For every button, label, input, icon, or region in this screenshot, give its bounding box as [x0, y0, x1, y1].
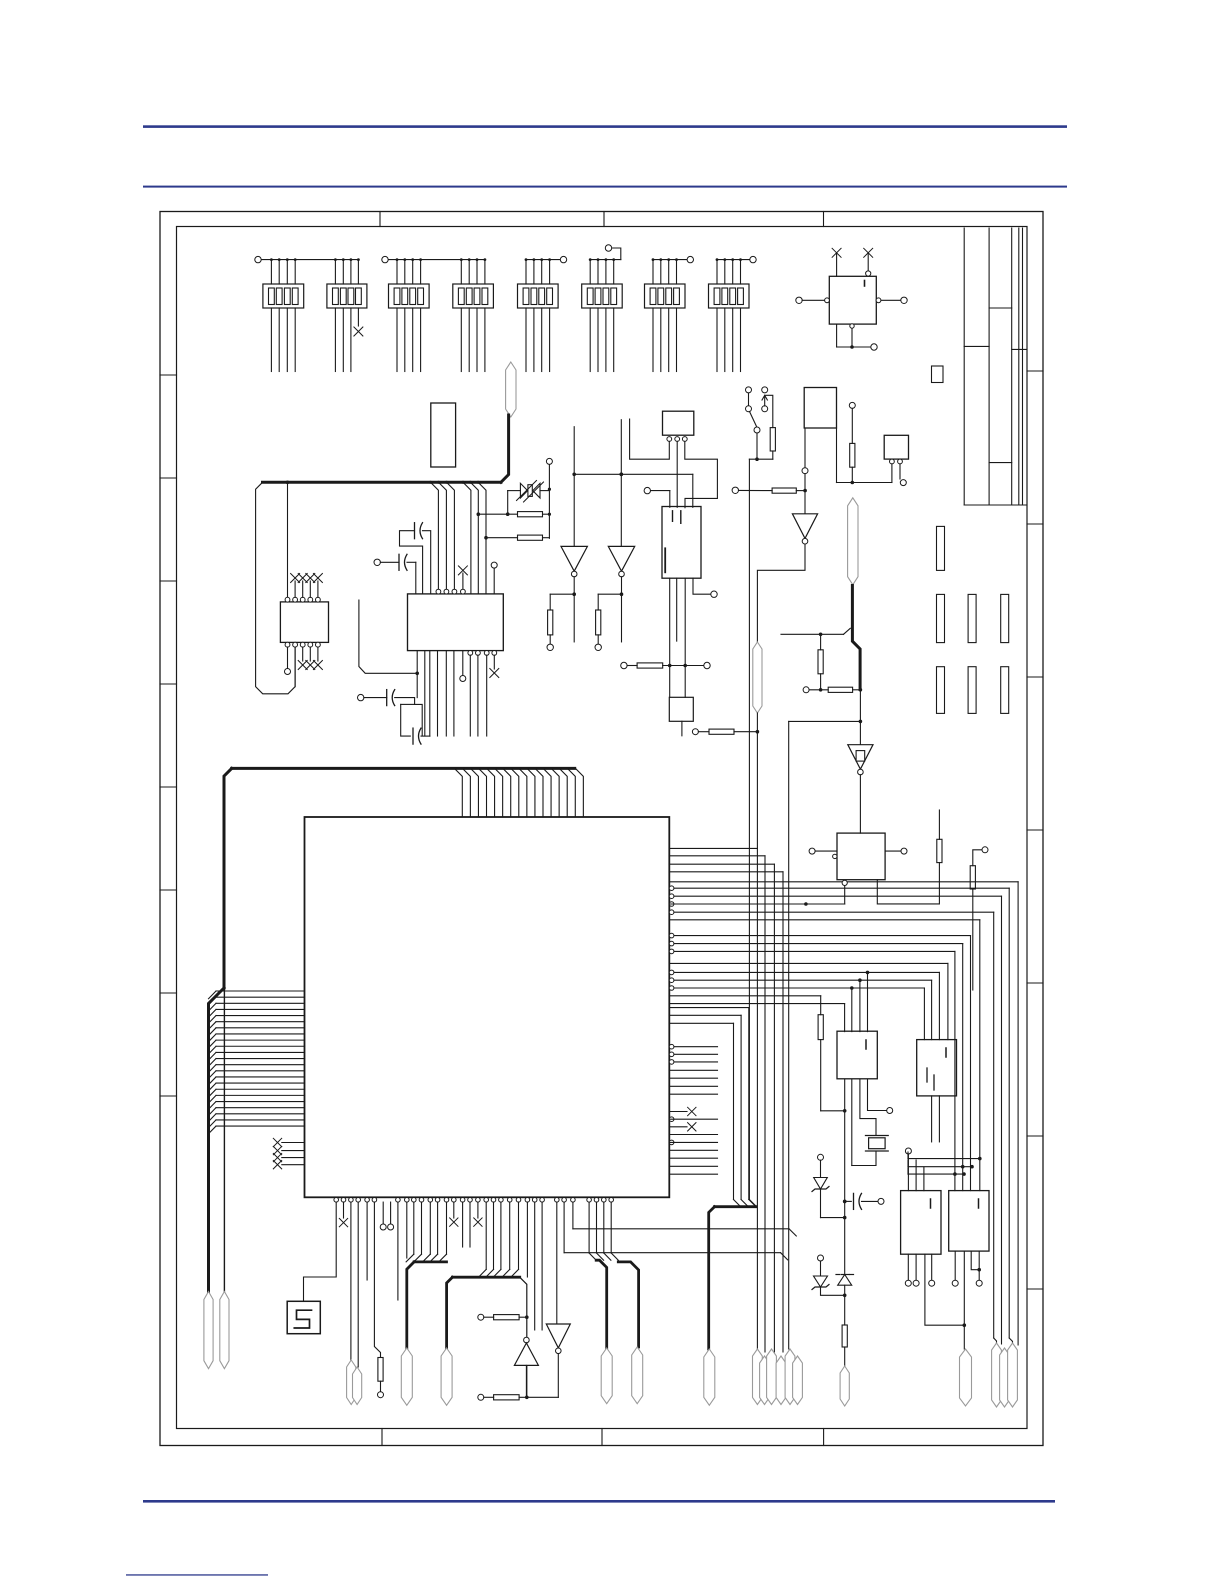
right-edge bus segment b — [964, 345, 989, 347]
wire W2 — [564, 1253, 788, 1260]
B1 bottom stub — [804, 428, 806, 467]
U-osc left terminal — [809, 848, 837, 859]
wire INV3 out — [757, 544, 805, 642]
mesh drop box4-c — [961, 944, 965, 1191]
U-tall bottom pin d — [693, 578, 717, 597]
wire inv2 input vertical — [620, 420, 624, 547]
pad P-L2 — [220, 1292, 229, 1369]
zener D2 — [812, 1178, 829, 1192]
resistor R-v2 vertical — [970, 866, 975, 889]
resistor R-s vertical — [850, 443, 855, 467]
B3 pin circles — [667, 437, 687, 442]
left border zone tick 5 — [160, 786, 177, 788]
wire C3 right — [395, 698, 423, 736]
U-tall bottom pin c — [684, 578, 686, 697]
U1 right pin stubs lower — [669, 1117, 717, 1174]
U9 pin up-right with no-connect — [864, 248, 873, 276]
U-mid top pin terminal — [491, 562, 497, 594]
U1 pins fan to bus B — [479, 1202, 519, 1277]
resistor R-b4 horizontal — [709, 729, 734, 734]
U1 pins fan to bus A — [406, 1202, 446, 1262]
resistor pack RP6 with riser terminal — [582, 245, 623, 372]
resistor pack RP7 with terminal — [645, 256, 694, 371]
resistor R-sw vertical — [770, 428, 775, 451]
pads cluster BR2 — [753, 1349, 803, 1405]
B4 bottom stub — [681, 721, 683, 736]
U1 pins fan to bus C1 — [589, 1202, 604, 1260]
U1 right pin X stub a — [669, 1107, 696, 1115]
U1 pin stub d — [462, 1202, 464, 1247]
left border zone tick 1 — [160, 374, 177, 376]
wire branch 721 — [789, 721, 861, 1349]
U-osc bottom right wire — [877, 863, 939, 904]
mesh drop box2-c — [931, 980, 933, 1039]
U1 right pin drop rows — [669, 1008, 749, 1200]
resistor R-bl vertical — [378, 1358, 383, 1382]
U-osc right terminal — [885, 848, 907, 854]
resistor R-v1 vertical — [937, 839, 942, 862]
bus thick horizontal mid — [263, 481, 501, 484]
right border zone tick 5 — [1027, 982, 1043, 984]
wire R-sw to node — [749, 451, 772, 461]
IC box2 body — [917, 1040, 957, 1096]
bus thick left jog — [209, 988, 225, 1292]
wire below P-c3 — [756, 713, 758, 848]
IC U1 body (main MCU) — [305, 817, 670, 1197]
R-e lower wire — [819, 674, 823, 692]
box1 pin1 mark — [865, 1040, 867, 1049]
R-d lower wire — [821, 1040, 847, 1113]
right border zone tick 3 — [1027, 676, 1043, 678]
left border zone tick 2 — [160, 477, 177, 479]
IC U9 pin1 mark — [864, 281, 866, 287]
right border zone tick 7 — [1027, 1288, 1043, 1290]
terminal R-f — [803, 687, 828, 693]
U1 pin stub g — [541, 1202, 543, 1330]
mesh drop box1-c — [858, 978, 862, 1031]
pad P-BLb — [353, 1367, 362, 1405]
IC box3 body — [901, 1191, 941, 1255]
U1 pin stub c — [450, 1202, 458, 1226]
top border zone tick 1 — [379, 212, 381, 227]
IC U-left body — [280, 602, 328, 643]
bottom border zone tick 1 — [381, 1429, 383, 1446]
vertical node x549 — [546, 458, 552, 538]
diode D3b — [836, 1275, 854, 1286]
connector J-mid body — [431, 403, 456, 467]
header rule bottom — [143, 186, 1067, 188]
terminal above R-s — [849, 402, 855, 443]
IC U-osc body — [837, 833, 885, 880]
left border zone tick 7 — [160, 992, 177, 994]
wire inv1 output — [572, 577, 576, 642]
wire R4 — [477, 488, 552, 516]
U1 pin nc2 — [474, 1202, 482, 1226]
wire below node-ut — [669, 666, 671, 698]
R-bl terminal — [378, 1381, 384, 1398]
IC box1 body — [837, 1031, 877, 1079]
box2 inner tick — [927, 1068, 934, 1090]
mesh drop box4-d — [953, 951, 957, 1190]
bus C1 thick — [596, 1260, 607, 1348]
U-mid top pin circles — [436, 589, 457, 594]
thick wire from P-c1 — [501, 415, 509, 482]
bus fan to U-mid top — [429, 481, 486, 594]
box1 pin c wire — [860, 1079, 876, 1135]
capacitor C1 — [399, 554, 407, 570]
U9 left pin terminal — [796, 297, 830, 303]
IC U-tall body — [662, 507, 701, 579]
footer rule — [143, 1500, 1055, 1503]
pads cluster BR3 — [992, 1343, 1018, 1407]
pad P-A — [401, 1348, 412, 1405]
wire osc feed — [669, 880, 847, 906]
resistor R-d vertical — [818, 1015, 823, 1040]
switch SW1 — [746, 387, 761, 433]
resistor pack RP4 — [453, 258, 494, 371]
component B1 body — [804, 388, 836, 429]
terminal TP-ut — [644, 487, 670, 507]
R-bb terminal — [478, 1394, 559, 1400]
U1 pin stub f — [534, 1202, 536, 1330]
mesh drop a — [1009, 888, 1012, 1343]
U1 pin stub b — [397, 1202, 399, 1300]
U9 pin up-left with no-connect — [832, 248, 841, 276]
wire R5 — [484, 536, 549, 540]
mesh drop c — [994, 912, 997, 1343]
box2 pin1 mark — [945, 1048, 947, 1057]
top border zone tick 2 — [603, 212, 605, 227]
wire inv1 branch — [550, 594, 574, 610]
bus entry into P-c2 wire — [781, 628, 850, 636]
bottom thick bus — [709, 1200, 756, 1350]
D2 lower wire — [821, 1189, 845, 1218]
IC box4 body — [949, 1191, 989, 1252]
resistor pack RP1 with terminal — [255, 256, 359, 371]
pad P-c2 — [848, 498, 858, 585]
bottom border zone tick 3 — [823, 1429, 825, 1446]
wire node474 horizontal — [574, 473, 693, 508]
component B3 body — [663, 411, 694, 435]
wire C2 left — [400, 531, 423, 594]
bus thick top horizontal — [232, 767, 575, 770]
R-v2 bottom wire — [972, 889, 974, 990]
U9 right pin terminal — [876, 297, 907, 303]
R-b4 terminal — [692, 729, 759, 735]
left border zone tick 4 — [160, 683, 177, 685]
capacitor C2 — [415, 523, 423, 539]
crystal Y1 — [866, 1136, 889, 1152]
stair wires — [908, 1152, 980, 1176]
mesh drop box2-a — [947, 963, 949, 1039]
terminal mid — [818, 1255, 824, 1261]
U-small2 pin circles — [890, 459, 903, 464]
resistor pack RP3 with terminal — [382, 256, 485, 371]
U1 pin to pad BL-b — [357, 1202, 359, 1367]
U1 right pins to bundle — [669, 848, 783, 1352]
bus fan to U1 top pins — [454, 768, 583, 817]
resistor pack RP5 with terminal — [518, 256, 567, 371]
U1 pin stub e — [469, 1202, 471, 1247]
B3 pin3 wire — [685, 441, 718, 507]
R-ba terminal — [478, 1314, 529, 1320]
box1 pin d wire — [868, 1079, 893, 1113]
pad P-z — [840, 1366, 849, 1406]
schematic outer border — [160, 212, 1043, 1446]
crystal loop — [852, 1151, 876, 1166]
header rule top — [143, 125, 1067, 128]
U1 right pin stubs upper — [669, 1044, 717, 1094]
buffer INV4 — [848, 745, 873, 775]
switch line down — [749, 459, 756, 1206]
inverter INV1 — [561, 546, 587, 576]
bus A thick — [407, 1262, 447, 1348]
resistor R-z vertical — [842, 1325, 847, 1347]
wire inv2 output — [620, 577, 624, 642]
left border zone tick 3 — [160, 580, 177, 582]
U1 pin stub a — [366, 1202, 368, 1280]
buffer T-down — [546, 1324, 570, 1397]
U-tall bottom pin a — [669, 578, 671, 665]
mesh drop box2-d — [923, 988, 925, 1040]
R-ut left terminal — [621, 662, 637, 668]
box4 pin1 mark — [978, 1199, 980, 1208]
terminal strip column 3 — [1001, 594, 1009, 713]
U1 pin stub h — [563, 1202, 565, 1253]
B3 pin1 wire — [630, 419, 670, 459]
pad P-L1 — [204, 1292, 213, 1369]
inverter INV2 — [608, 546, 634, 576]
pad P-BRs — [960, 1349, 972, 1406]
left border zone tick 8 — [160, 1095, 177, 1097]
wire R-s lower — [851, 467, 855, 484]
resistor R1 vertical — [548, 610, 553, 635]
right border zone tick 1 — [1027, 370, 1043, 372]
R-d riser — [820, 996, 822, 1015]
capacitor C-x — [843, 1193, 884, 1209]
terminal above INV3 — [802, 468, 808, 514]
pad P-B — [441, 1348, 452, 1405]
buffer T-up — [514, 1337, 538, 1397]
capacitor C3 — [387, 690, 395, 706]
right-edge bus segment a — [989, 307, 1012, 309]
right border zone tick 2 — [1027, 523, 1043, 525]
pad P-C1 — [601, 1348, 612, 1404]
resistor R2 vertical — [596, 610, 601, 635]
U1 pin to bus A — [406, 1202, 408, 1258]
box3 feed b — [915, 1160, 917, 1191]
switch SW1 output wire — [756, 433, 758, 459]
bus C2 thick — [604, 1253, 639, 1347]
box3 bottom pins — [905, 1254, 966, 1327]
TVS diode D1 — [517, 481, 544, 503]
top border zone tick 3 — [823, 212, 825, 227]
right border zone tick 4 — [1027, 829, 1043, 831]
bottom border zone tick 2 — [601, 1429, 603, 1446]
B3 pin2 wire — [676, 441, 678, 507]
pad P-BLa — [347, 1360, 356, 1405]
wire R-ut right — [663, 662, 711, 668]
U-mid bottom pin X-end — [490, 651, 499, 678]
U1 pin stub i — [572, 1202, 574, 1229]
R-v2 top terminal — [973, 847, 988, 866]
box1 pin b wire — [851, 1079, 853, 1165]
right border zone tick 6 — [1027, 1135, 1043, 1137]
diode D3a — [812, 1261, 847, 1297]
U-mid top pin X — [458, 566, 467, 594]
logo box S — [287, 1301, 320, 1333]
component B2 body — [932, 366, 944, 383]
arrow switch SW2 — [762, 387, 773, 428]
R3 left terminal — [732, 487, 772, 493]
IC U9 body — [829, 276, 876, 324]
U-mid bottom pins circled — [468, 651, 489, 737]
wire C2 right — [423, 531, 431, 594]
U9 bottom pin wires — [837, 324, 878, 350]
resistor R-f horizontal — [828, 687, 852, 692]
wire R-f right — [853, 688, 863, 692]
right-edge bus segment c — [1012, 348, 1027, 350]
U1 pin to R-bl — [374, 1202, 380, 1357]
mesh drop box2-b — [938, 972, 940, 1039]
IC U-mid body — [408, 594, 504, 651]
U-mid bottom pin circle-end — [460, 651, 466, 682]
wire B1 to U-small2 — [837, 428, 892, 483]
buffer INV4 input — [859, 690, 863, 745]
U1 pins fan to bus C2 — [604, 1202, 619, 1260]
U1 bottom pin circles — [334, 1198, 614, 1203]
bus left corner — [256, 482, 296, 694]
bus B tail — [520, 1277, 527, 1397]
box4 bottom pins — [952, 1251, 982, 1349]
R-v1 top wire — [938, 810, 940, 839]
wire left spare vertical — [223, 988, 225, 1292]
right-edge bus bottom — [964, 504, 1027, 506]
bus thick left corner — [224, 768, 232, 988]
terminal strip column 2 — [968, 594, 976, 713]
capacitor C4 loop — [401, 651, 430, 745]
mesh drop box1-d — [866, 971, 870, 1032]
U1 left pin bus entries — [209, 991, 305, 1134]
pad P-C2 — [632, 1347, 643, 1404]
U-mid bottom pins — [425, 651, 454, 736]
resistor pack RP2 — [327, 258, 367, 371]
resistor R3 horizontal — [772, 488, 796, 493]
left border zone tick 6 — [160, 889, 177, 891]
U1 right pin mesh horizontals — [669, 886, 1009, 1004]
resistor pack RP8 with terminal — [709, 256, 757, 371]
inverter INV3 — [792, 514, 817, 544]
wire INV4 to osc — [859, 775, 861, 833]
U1 pin circle-end b — [388, 1202, 394, 1230]
component B4 body — [669, 697, 693, 721]
wire D3 column — [844, 1218, 846, 1325]
box1 pin a wire — [843, 1079, 847, 1219]
bus B thick — [447, 1277, 520, 1348]
resistor R-ut horizontal — [637, 663, 663, 668]
pad P-c1 — [506, 362, 516, 417]
resistor R-e vertical — [818, 634, 823, 674]
thick wire from P-c2 — [852, 586, 860, 690]
U1 pin nc1 — [339, 1202, 347, 1227]
U-tall bottom pin b — [676, 578, 678, 641]
U-tall pin1 bar — [664, 548, 666, 572]
R-z lower wire — [844, 1347, 846, 1366]
U-tall inner ticks — [673, 511, 681, 524]
box3 pin1 mark — [930, 1199, 932, 1208]
U-left pin1 riser — [285, 481, 290, 603]
U1 pin wire to logo — [304, 1202, 337, 1301]
wire inv2 branch — [598, 594, 621, 610]
wire D1 right — [540, 490, 549, 492]
box2 bottom pins — [932, 1096, 940, 1142]
mesh drop box1-b — [850, 986, 854, 1031]
IC U-small2 body — [884, 435, 908, 459]
pad P-c3 — [753, 642, 762, 713]
zener D2 feed — [818, 1154, 824, 1177]
U-left bottom pins — [285, 642, 323, 686]
right-edge bus verticals — [964, 228, 1022, 505]
U-small2 pin wires — [892, 464, 906, 486]
U1 pin spine — [526, 1202, 528, 1277]
footer link underline — [126, 1574, 268, 1575]
box3 feed terminal — [905, 1148, 911, 1191]
terminal strip column 1 — [937, 526, 945, 713]
schematic inner border — [177, 227, 1028, 1429]
U1 right pin long row — [669, 882, 1018, 1345]
terminal below R2 — [595, 635, 601, 651]
pad P-BR1 — [704, 1349, 715, 1405]
U1 pin circle-end a — [380, 1202, 386, 1230]
resistor R4 horizontal — [518, 512, 543, 517]
resistor R-bb horizontal — [494, 1395, 519, 1400]
wire W1 — [573, 1229, 796, 1236]
U-mid pin1 net — [359, 600, 419, 698]
U1 pin to pad BL-a — [350, 1202, 352, 1360]
resistor R5 horizontal — [518, 535, 543, 540]
terminal below R1 — [547, 635, 553, 651]
resistor R-ba horizontal — [494, 1315, 519, 1320]
wire R3 right — [796, 490, 805, 492]
wire D1 left — [506, 491, 521, 516]
C3 terminal — [358, 694, 387, 700]
U1 left no-connect pins — [273, 1138, 304, 1169]
mesh drop box4-a — [978, 920, 982, 1191]
mesh drop box1-a — [844, 1004, 846, 1032]
mesh drop b — [1001, 896, 1003, 1344]
mesh drop box4-b — [970, 936, 972, 1191]
wire inv1 input vertical — [572, 427, 576, 547]
C1 terminal — [374, 559, 399, 565]
wire C1 right — [407, 562, 416, 594]
U-left top pins with no-connects — [291, 574, 323, 603]
right-edge bus segment d — [989, 462, 1012, 464]
box3 feed c — [923, 1167, 925, 1191]
wire to T-down — [556, 1202, 558, 1324]
